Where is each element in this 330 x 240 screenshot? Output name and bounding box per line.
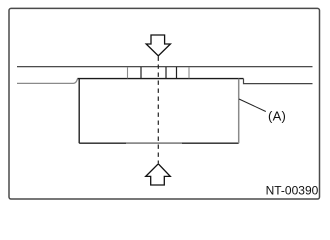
top plate line — [17, 66, 313, 68]
right step and lower plate line — [244, 79, 313, 84]
svg-text:NT-00390: NT-00390 — [266, 184, 319, 198]
tick 5 — [188, 67, 190, 78]
bottom press arrow — [146, 164, 171, 185]
dashed centerline — [157, 57, 159, 164]
box (A) bottom edge — [79, 142, 239, 144]
box (A) left edge — [78, 79, 80, 144]
tick 2 — [140, 67, 142, 78]
tick 3 — [165, 67, 167, 78]
box (A) right edge — [238, 79, 240, 144]
flange top line — [78, 78, 244, 80]
tick 1 — [127, 67, 129, 78]
tick 4 — [176, 67, 178, 78]
box bottom gray mid segment — [126, 142, 182, 144]
left lower plate line — [17, 79, 78, 84]
border frame — [9, 8, 320, 199]
top press arrow — [146, 35, 170, 56]
leader line to (A) — [239, 99, 266, 112]
svg-text:(A): (A) — [268, 109, 286, 124]
